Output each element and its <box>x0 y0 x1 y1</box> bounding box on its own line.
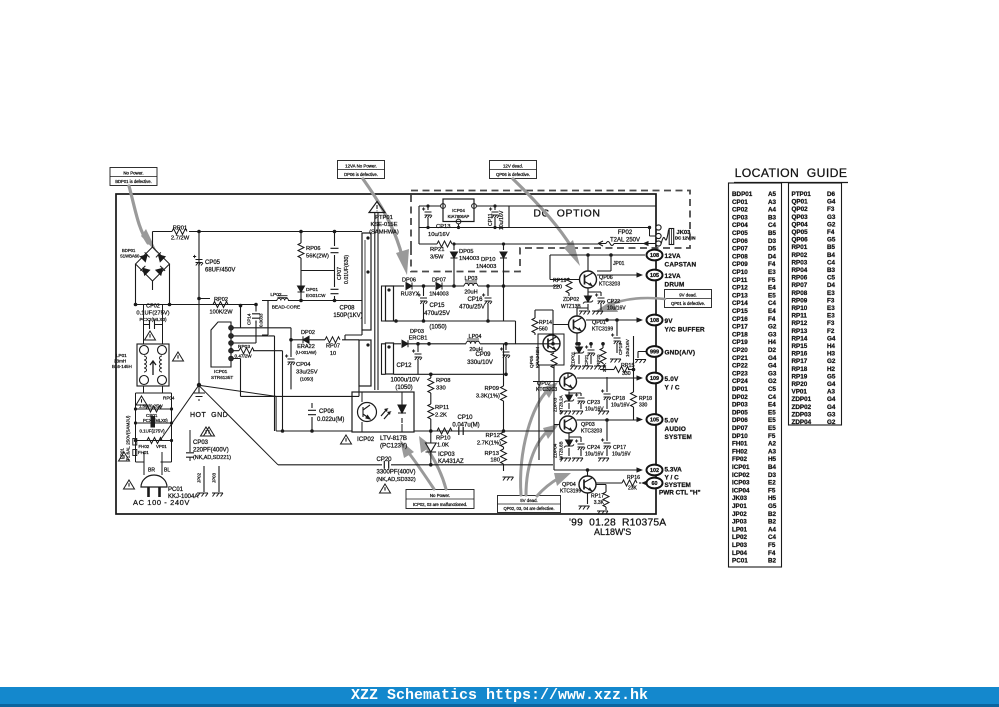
svg-text:(1050): (1050) <box>429 325 446 331</box>
svg-text:A3: A3 <box>768 448 777 455</box>
svg-text:DRUM: DRUM <box>665 281 685 288</box>
svg-text:BDP01: BDP01 <box>122 248 136 253</box>
transistor QP05 KRA943M <box>529 334 564 368</box>
svg-text:RP04: RP04 <box>792 267 808 274</box>
svg-text:JP03: JP03 <box>212 472 217 483</box>
svg-text:10u/16V: 10u/16V <box>585 452 604 458</box>
svg-text:ICP04: ICP04 <box>732 487 750 494</box>
svg-text:RP16: RP16 <box>627 475 640 481</box>
capacitor CP10 0.047u(M) <box>452 415 479 435</box>
svg-text:ZDP01: ZDP01 <box>792 396 812 403</box>
svg-text:E5: E5 <box>768 425 776 432</box>
svg-text:RP09: RP09 <box>484 386 499 392</box>
capacitor CP18 10u/16V <box>601 377 630 409</box>
svg-text:10u/16V: 10u/16V <box>607 306 626 312</box>
svg-text:G4: G4 <box>768 355 777 362</box>
svg-text:(NK,AD,SD221): (NK,AD,SD221) <box>193 455 231 461</box>
svg-text:CP08: CP08 <box>732 253 748 260</box>
capacitor CP07 0.01UF(630) <box>331 230 351 286</box>
capacitor CP19 10u/16V <box>610 318 631 362</box>
svg-text:1N4003: 1N4003 <box>476 264 496 270</box>
svg-text:(NK,AD,SD332): (NK,AD,SD332) <box>376 477 416 483</box>
svg-text:ZDP02: ZDP02 <box>792 404 812 411</box>
svg-text:CP04: CP04 <box>296 362 311 368</box>
svg-text:B4: B4 <box>827 252 836 259</box>
svg-text:CP06: CP06 <box>319 409 335 415</box>
svg-text:DP05: DP05 <box>732 409 748 416</box>
svg-text:CP12: CP12 <box>396 363 412 369</box>
svg-text:PWR CTL "H": PWR CTL "H" <box>659 490 701 497</box>
svg-text:0.01UF(630): 0.01UF(630) <box>344 255 350 284</box>
svg-text:F3: F3 <box>827 206 835 213</box>
svg-text:2.7K(1%): 2.7K(1%) <box>477 441 501 447</box>
svg-text:CP09: CP09 <box>732 261 748 268</box>
wire 12V bottom to RP09 column <box>504 286 516 344</box>
svg-text:G3: G3 <box>768 331 777 338</box>
resistor RP14 560 <box>532 310 553 335</box>
svg-text:DP02: DP02 <box>732 394 748 401</box>
svg-text:33u/25V: 33u/25V <box>296 370 318 376</box>
IC ICP01 STR6135T <box>211 322 233 380</box>
callout box 6: 5V dead. QP02, 03, 04 are defective. <box>498 496 561 513</box>
svg-text:1.0K: 1.0K <box>437 443 449 449</box>
svg-text:KTC3199: KTC3199 <box>592 327 613 333</box>
svg-text:10u/16V: 10u/16V <box>612 452 631 458</box>
transformer secondary winding 2 <box>386 343 394 374</box>
svg-text:A4: A4 <box>768 526 777 533</box>
warning triangle above CP03 <box>204 427 215 436</box>
svg-text:108: 108 <box>650 318 659 324</box>
svg-text:RP03: RP03 <box>792 259 808 266</box>
svg-text:12V dead.: 12V dead. <box>503 163 523 168</box>
capacitor CP01 PCX2(MLX0) <box>134 413 173 434</box>
svg-text:C4: C4 <box>768 534 777 541</box>
svg-text:No Power.: No Power. <box>123 170 143 175</box>
svg-text:G4: G4 <box>768 363 777 370</box>
warning triangle right of LP01 <box>173 352 184 361</box>
callout box 5: No Power. ICP02, 03 are malfunctioned. <box>406 490 474 509</box>
svg-text:QP01: QP01 <box>792 199 809 206</box>
zener ZDP03 WTZ8.2A <box>553 392 575 415</box>
callout box 4: 9V dead. QP01 is defective. <box>665 290 712 308</box>
resistor RP06 56K(2W) <box>298 230 329 286</box>
svg-text:D2: D2 <box>768 347 777 354</box>
bead core inductor LP02 <box>262 292 362 311</box>
svg-text:A3: A3 <box>768 199 777 206</box>
svg-text:DP01: DP01 <box>732 386 748 393</box>
svg-text:CP01: CP01 <box>732 199 748 206</box>
svg-text:3.3K: 3.3K <box>594 500 605 506</box>
svg-text:56K(2W): 56K(2W) <box>306 254 329 260</box>
svg-text:BDP01: BDP01 <box>732 191 753 198</box>
svg-text:(SAMHWA): (SAMHWA) <box>369 230 399 236</box>
ground below RP13 <box>503 477 514 481</box>
svg-text:1N4003: 1N4003 <box>459 256 479 262</box>
svg-text:F4: F4 <box>768 550 776 557</box>
svg-text:CP22: CP22 <box>607 299 620 305</box>
svg-text:CP21: CP21 <box>732 355 748 362</box>
connector GND(A/V) <box>635 346 695 363</box>
svg-text:RU3YX: RU3YX <box>401 292 420 298</box>
svg-text:F5: F5 <box>768 277 776 284</box>
svg-text:20uH: 20uH <box>464 290 477 296</box>
gray arrow from callout 1 to BDP01 <box>129 186 158 254</box>
svg-text:ICP01: ICP01 <box>732 464 750 471</box>
svg-text:JP01: JP01 <box>613 261 625 267</box>
svg-text:JP02: JP02 <box>732 511 747 518</box>
svg-text:F4: F4 <box>768 261 776 268</box>
svg-text:ZDP03: ZDP03 <box>553 397 558 412</box>
jack JK03 DC 12V IN <box>648 225 696 246</box>
svg-text:CP05: CP05 <box>205 260 221 266</box>
svg-text:CP07: CP07 <box>337 267 343 280</box>
svg-text:RP07: RP07 <box>792 282 808 289</box>
svg-text:10: 10 <box>330 351 336 357</box>
svg-text:CP24: CP24 <box>732 378 748 385</box>
svg-text:ZDP04: ZDP04 <box>553 443 558 458</box>
svg-text:3/5W: 3/5W <box>430 255 444 261</box>
svg-text:RP06: RP06 <box>306 246 321 252</box>
svg-text:ZDP01: ZDP01 <box>571 351 576 366</box>
svg-text:CP11: CP11 <box>488 213 494 226</box>
svg-text:LP04: LP04 <box>468 334 481 340</box>
svg-text:CP17: CP17 <box>732 324 748 331</box>
resistor RP07 10 <box>325 337 359 357</box>
svg-text:60: 60 <box>652 481 658 487</box>
svg-text:150P(1KV): 150P(1KV) <box>333 313 362 319</box>
capacitor CP09 330u/10V <box>467 342 510 374</box>
svg-text:DP03: DP03 <box>732 402 748 409</box>
capacitor CP14 0.0033 <box>247 303 264 327</box>
svg-text:QP06 is defective.: QP06 is defective. <box>496 172 530 177</box>
svg-text:108: 108 <box>650 253 659 259</box>
svg-text:RP15: RP15 <box>621 363 635 369</box>
resistor RP21 3/5W <box>430 241 598 261</box>
svg-text:QP05: QP05 <box>792 229 809 236</box>
svg-text:ICP02: ICP02 <box>732 472 750 479</box>
svg-text:CP21: CP21 <box>584 354 589 366</box>
svg-text:0.1UF(275V): 0.1UF(275V) <box>136 311 169 317</box>
svg-text:RP14: RP14 <box>539 320 552 326</box>
svg-text:SYSTEM: SYSTEM <box>665 434 692 441</box>
svg-text:220PF(400V): 220PF(400V) <box>193 448 229 454</box>
svg-text:E5: E5 <box>768 292 776 299</box>
capacitor CP21 10u/16V <box>584 342 595 366</box>
svg-text:(U-001AW): (U-001AW) <box>296 350 317 355</box>
svg-text:BL: BL <box>164 468 170 474</box>
svg-text:WTZ6.8B: WTZ6.8B <box>559 441 564 460</box>
svg-text:G3: G3 <box>827 411 836 418</box>
svg-text:G2: G2 <box>768 324 777 331</box>
node row y=304 <box>136 304 241 306</box>
svg-text:RP20: RP20 <box>792 381 808 388</box>
svg-text:E2: E2 <box>768 480 776 487</box>
HOT GND node and diagonals <box>160 299 278 465</box>
svg-text:1000u/10V: 1000u/10V <box>390 378 419 384</box>
svg-text:CP13: CP13 <box>732 292 748 299</box>
resistor RP20 3.3K <box>596 342 607 372</box>
svg-text:VP01: VP01 <box>156 444 167 449</box>
svg-text:RP04: RP04 <box>163 396 175 401</box>
svg-text:12VA No Power.: 12VA No Power. <box>345 163 377 168</box>
diode DP06 RU3YX <box>394 278 420 298</box>
location guide title <box>734 166 848 183</box>
svg-text:RP08: RP08 <box>436 378 451 384</box>
resistor RP13 180 <box>484 447 506 471</box>
12V section bottom bus <box>386 286 516 321</box>
svg-text:E3: E3 <box>827 305 835 312</box>
5.3VA output <box>554 469 640 471</box>
fuse FP02 T2AL 250V <box>598 230 649 246</box>
svg-text:G2: G2 <box>827 419 836 426</box>
svg-text:68UF/450V: 68UF/450V <box>205 268 235 274</box>
svg-text:RP17: RP17 <box>792 358 808 365</box>
svg-text:KIA7806AP: KIA7806AP <box>448 214 470 219</box>
svg-text:F3: F3 <box>827 320 835 327</box>
svg-text:QP01 is defective.: QP01 is defective. <box>671 301 705 306</box>
svg-text:B16-145H: B16-145H <box>112 364 132 369</box>
svg-text:470u/25V: 470u/25V <box>424 311 450 317</box>
svg-text:CP06: CP06 <box>732 238 748 245</box>
12VA DRUM output <box>597 274 640 276</box>
svg-text:RP19: RP19 <box>792 373 808 380</box>
svg-text:CP03: CP03 <box>193 440 209 446</box>
transformer core <box>375 212 378 390</box>
resistor RP17 3.3K <box>591 485 609 515</box>
svg-text:DP07: DP07 <box>732 425 748 432</box>
svg-text:ZDP02: ZDP02 <box>563 297 579 303</box>
svg-text:H4: H4 <box>768 339 777 346</box>
svg-text:RP03: RP03 <box>238 344 250 350</box>
svg-text:QP01: QP01 <box>592 320 606 326</box>
svg-text:470u/25V: 470u/25V <box>459 305 485 311</box>
svg-text:C4: C4 <box>827 259 836 266</box>
svg-text:KTC3199: KTC3199 <box>560 489 581 495</box>
svg-text:F2: F2 <box>827 328 835 335</box>
svg-text:KTC3203: KTC3203 <box>581 429 602 435</box>
svg-text:G3: G3 <box>827 214 836 221</box>
resistor RP04 1.5M/0.25W <box>134 396 175 413</box>
svg-text:FP02: FP02 <box>618 230 633 236</box>
grounds under ZDP01 CP21 RP20 <box>570 366 581 370</box>
resistor RP01 2.7/2W <box>153 226 363 242</box>
svg-text:RP18: RP18 <box>639 396 652 402</box>
jumper JP01 <box>597 255 625 271</box>
main board border <box>116 194 656 514</box>
svg-text:RP19: RP19 <box>553 278 567 284</box>
bridge rectifier BDP01 <box>120 247 170 281</box>
svg-text:CP02: CP02 <box>732 207 748 214</box>
svg-text:E3: E3 <box>827 290 835 297</box>
svg-text:LP04: LP04 <box>732 550 748 557</box>
svg-text:RP13: RP13 <box>792 328 808 335</box>
capacitor CP02 0.1UF(275V) PCX2(MLX0) <box>136 304 169 330</box>
svg-text:2.7/2W: 2.7/2W <box>171 236 190 242</box>
svg-text:DC 12V IN: DC 12V IN <box>675 235 696 240</box>
svg-text:ICP04: ICP04 <box>452 208 465 213</box>
svg-text:0.1UF(275V): 0.1UF(275V) <box>140 429 166 434</box>
svg-text:G5: G5 <box>827 373 836 380</box>
svg-text:105: 105 <box>650 273 659 279</box>
svg-text:ZDP03: ZDP03 <box>792 411 812 418</box>
svg-text:QP06: QP06 <box>792 237 809 244</box>
svg-text:CP11: CP11 <box>732 277 748 284</box>
node at 199,231 <box>197 230 201 234</box>
gray arrows from callout 5 to ICP02/ICP03 <box>400 436 446 489</box>
connector 108 9V Y/C BUFFER <box>637 315 706 334</box>
svg-text:RP11: RP11 <box>435 405 449 411</box>
thermal protector PTP01 KSE-015E (SAMHWA) <box>369 202 399 236</box>
capacitor CP05 68UF/450V <box>193 255 235 274</box>
svg-text:ICP03: ICP03 <box>438 452 455 458</box>
wire bridge bottom <box>152 281 154 290</box>
svg-text:CP16: CP16 <box>732 316 748 323</box>
svg-text:G5: G5 <box>768 503 777 510</box>
svg-text:1N4003: 1N4003 <box>429 292 449 298</box>
transistor QP02 KTC3203 <box>533 365 577 460</box>
grounds under ZDP03 row <box>560 411 571 415</box>
svg-text:9V: 9V <box>665 318 674 325</box>
grounds under ZDP04 row <box>560 458 571 462</box>
warning triangle bottom left <box>119 452 130 461</box>
connector 60 PWR CTL H <box>641 478 663 489</box>
bottom bus y=465 with CP20 <box>278 463 553 467</box>
svg-text:E3: E3 <box>768 269 776 276</box>
svg-text:RP18: RP18 <box>792 366 808 373</box>
svg-text:A4: A4 <box>768 207 777 214</box>
svg-text:RP20: RP20 <box>596 354 601 366</box>
wire bridge top to RP01 rail <box>152 232 154 248</box>
svg-text:G2: G2 <box>827 221 836 228</box>
transistor QP04 KTC3199 <box>560 468 596 509</box>
shunt reg ICP03 KA431AZ <box>426 431 465 465</box>
callout box 1: No Power. BDP01 is defective. <box>110 168 157 186</box>
svg-text:RP10: RP10 <box>792 305 808 312</box>
svg-text:330u/10V: 330u/10V <box>467 360 493 366</box>
svg-text:LTV-817B: LTV-817B <box>380 435 407 442</box>
svg-text:QP03: QP03 <box>792 214 809 221</box>
svg-text:DP05: DP05 <box>459 249 474 255</box>
svg-text:JP03: JP03 <box>732 519 747 526</box>
warning triangle in filter box <box>136 396 147 405</box>
svg-text:H4: H4 <box>827 343 836 350</box>
svg-text:10u/16V: 10u/16V <box>625 338 631 357</box>
svg-text:CP02: CP02 <box>146 304 160 310</box>
zener ZDP04 WTZ6.8B <box>553 433 575 460</box>
line y=270 to DC option PTP area <box>262 301 268 336</box>
svg-text:F5: F5 <box>768 542 776 549</box>
svg-text:B2: B2 <box>768 519 777 526</box>
svg-text:CP04: CP04 <box>732 222 748 229</box>
svg-text:KTC3203: KTC3203 <box>599 282 620 288</box>
svg-text:G4: G4 <box>827 199 836 206</box>
QP01 wires <box>553 308 588 344</box>
svg-text:E4: E4 <box>768 285 776 292</box>
svg-text:KA431AZ: KA431AZ <box>438 459 464 465</box>
transistor QP03 KTC3203 <box>554 365 602 470</box>
callout box 2: 12VA No Power. DP06 is defective. <box>338 161 385 179</box>
svg-text:3.3K(1%): 3.3K(1%) <box>476 394 500 400</box>
svg-text:DP03: DP03 <box>410 329 424 335</box>
svg-text:CP10: CP10 <box>732 269 748 276</box>
svg-text:10u/16V: 10u/16V <box>428 232 450 238</box>
diode DP01 EG01CW <box>298 286 327 301</box>
svg-text:560: 560 <box>539 327 548 333</box>
12VA CAPSTAN rail <box>550 254 645 256</box>
svg-text:2.2K: 2.2K <box>435 413 447 419</box>
svg-text:CP23: CP23 <box>732 370 748 377</box>
DC option wires <box>419 206 656 244</box>
wire row y=431 <box>276 430 553 432</box>
svg-text:D3: D3 <box>768 472 777 479</box>
connector 105 12VA DRUM <box>637 270 685 289</box>
svg-text:QP02, 03, 04 are defective.: QP02, 03, 04 are defective. <box>504 506 555 511</box>
svg-text:CP18: CP18 <box>732 331 748 338</box>
svg-text:PTP01: PTP01 <box>375 215 393 221</box>
resistor RP09 3.3K(1%) <box>476 344 507 431</box>
svg-text:0.022u(M): 0.022u(M) <box>317 417 344 423</box>
svg-text:LP02: LP02 <box>732 534 748 541</box>
svg-text:999: 999 <box>650 350 659 356</box>
svg-text:0.047u(M): 0.047u(M) <box>452 423 479 429</box>
svg-text:D3: D3 <box>768 238 777 245</box>
DC OPTION dashed box <box>411 191 690 272</box>
resistor RP11 2.2K <box>428 404 449 431</box>
svg-text:B3: B3 <box>768 214 777 221</box>
svg-text:QP03: QP03 <box>581 422 595 428</box>
capacitor CP08 150P(1KV) <box>331 286 363 319</box>
svg-text:0.47/2W: 0.47/2W <box>235 353 253 358</box>
junction row y=270.5 <box>301 270 335 272</box>
svg-text:C5: C5 <box>827 275 836 282</box>
svg-text:DP06 is defective.: DP06 is defective. <box>344 172 378 177</box>
svg-text:RP10: RP10 <box>436 436 451 442</box>
svg-text:3300PF(400V): 3300PF(400V) <box>376 470 415 476</box>
capacitor CP15 470u/25V <box>418 284 450 320</box>
svg-text:C4: C4 <box>768 394 777 401</box>
svg-text:C4: C4 <box>768 300 777 307</box>
svg-text:E4: E4 <box>768 402 776 409</box>
lower filter box rails <box>136 386 172 462</box>
svg-text:E3: E3 <box>827 313 835 320</box>
diode DP03 ERCB1 <box>394 329 467 347</box>
svg-text:D4: D4 <box>827 282 836 289</box>
svg-text:CP08: CP08 <box>339 306 355 312</box>
svg-text:FH02: FH02 <box>732 448 748 455</box>
svg-text:VP01: VP01 <box>792 389 808 396</box>
svg-text:CP23: CP23 <box>587 400 600 406</box>
transistor QP06 KTC3203 <box>580 255 621 288</box>
svg-text:330: 330 <box>639 403 648 409</box>
svg-text:CP07: CP07 <box>732 246 748 253</box>
svg-text:E5: E5 <box>768 409 776 416</box>
resistor RP15 330 + 5.0V Y/C output <box>577 363 640 378</box>
svg-text:33mH: 33mH <box>114 359 126 364</box>
svg-text:B3: B3 <box>827 267 836 274</box>
svg-text:(PC123Y): (PC123Y) <box>380 443 407 450</box>
svg-text:RP09: RP09 <box>792 297 808 304</box>
svg-text:10u/16V: 10u/16V <box>585 407 604 413</box>
fuse FP01 T1.6AL 250V(SAMJU) vertical text <box>120 415 137 461</box>
svg-text:D5: D5 <box>768 246 777 253</box>
svg-text:GND(A/V): GND(A/V) <box>665 350 696 357</box>
svg-text:PCX2(MLX0): PCX2(MLX0) <box>143 418 168 423</box>
svg-text:G5: G5 <box>827 237 836 244</box>
capacitor CP24 10u/16V <box>569 437 604 458</box>
svg-text:T2AL 250V: T2AL 250V <box>610 238 640 244</box>
svg-text:T1.6AL 250V(SAMJU): T1.6AL 250V(SAMJU) <box>126 415 131 461</box>
svg-text:CP24: CP24 <box>587 445 600 451</box>
